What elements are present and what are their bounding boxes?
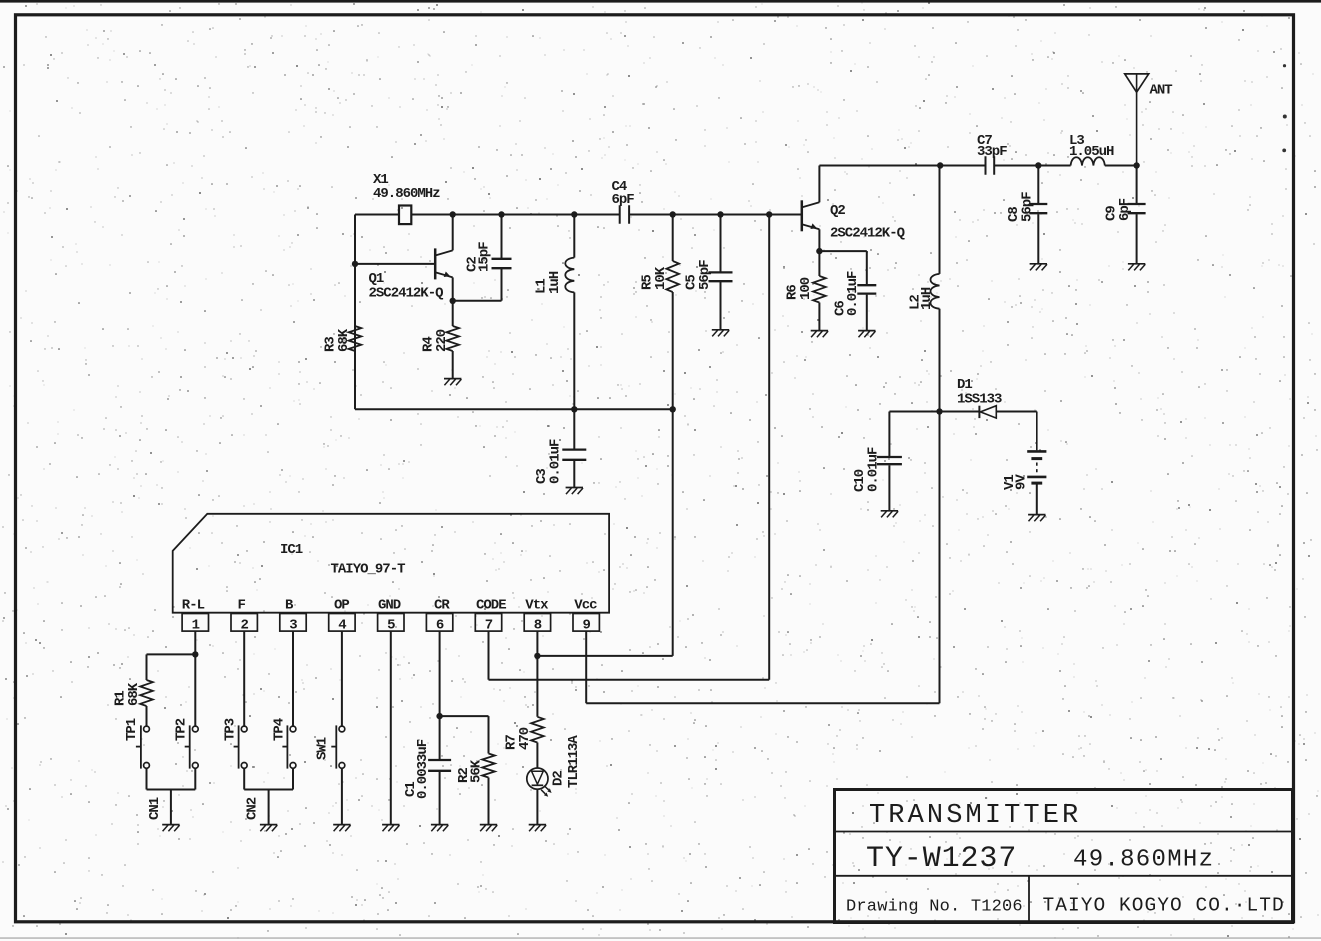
svg-text:TAIYO_97-T: TAIYO_97-T [331,562,406,578]
wire left vertical x355 [354,215,356,410]
wire TP4 bottom [292,768,294,789]
svg-text:TP4: TP4 [272,718,288,741]
antenna ANT [1125,74,1149,92]
ground C9 [1128,263,1145,265]
wire L1 top lead [573,215,575,258]
svg-text:ANT: ANT [1150,83,1173,99]
node L1 top junction [571,211,577,217]
wire pin6 to R2 [440,715,489,717]
node R5 top junction [670,211,676,217]
wire C2 bottom lead [501,269,503,301]
wire Q1 base [355,263,435,265]
battery V1 [1027,450,1046,453]
wire C10 bottom lead [888,465,890,510]
pin 7 box [475,614,501,632]
ground CN2 [260,824,277,826]
ground D2 [529,824,546,826]
testpoint TP2 [192,726,198,732]
switch SW1 [339,726,345,732]
capacitor C10 [877,456,902,458]
wire C9 bottom lead [1136,214,1138,264]
wire pin7 lead [488,631,490,680]
wire pin8 lead [536,631,538,717]
svg-text:OP: OP [334,598,349,614]
wire L1 bottom lead [573,292,575,409]
svg-text:33pF: 33pF [977,144,1007,160]
wire TP2 bottom [194,768,196,789]
wire Vtx riser [672,409,674,656]
wire CODE horizontal [489,679,770,681]
IC U1 outline [173,514,609,613]
svg-text:10K: 10K [653,266,669,290]
wire main line y214 left [355,214,399,216]
wire CN2 bracket [244,789,293,791]
pin 5 box [378,614,404,632]
wire R2 bottom lead [488,778,490,825]
wire Q1 collector [452,215,454,251]
transistor Q2 [801,200,804,231]
svg-text:TP1: TP1 [124,718,140,741]
transistor Q1 [434,248,437,279]
wire Vtx horizontal [537,655,672,657]
svg-text:68K: 68K [336,328,352,352]
svg-text:CN2: CN2 [245,797,261,820]
svg-text:F: F [238,598,246,614]
wire C1 bottom lead [439,772,441,825]
wire C3 top lead [573,409,575,449]
node R5 rail junction [670,406,676,412]
node CODE riser junction [766,211,772,217]
capacitor C5 [709,271,733,273]
svg-text:49.860MHz: 49.860MHz [373,186,440,202]
inductor L3 [1071,157,1105,165]
title block outer [835,790,1293,923]
svg-text:0.0033uF: 0.0033uF [415,739,431,799]
capacitor C2 [492,258,512,260]
ground V1 [1028,514,1045,516]
svg-text:2SC2412K-Q: 2SC2412K-Q [830,226,905,242]
LED D2 [527,768,548,789]
svg-text:2SC2412K-Q: 2SC2412K-Q [369,286,444,302]
svg-text:0.01uF: 0.01uF [547,439,563,484]
svg-text:49.860MHz: 49.860MHz [1073,847,1214,874]
testpoint TP3 [241,726,247,732]
node Q1 emitter junction [450,298,456,304]
ground C3 [566,487,583,489]
diode D1 [978,406,980,418]
svg-text:TAIYO KOGYO CO.·LTD: TAIYO KOGYO CO.·LTD [1043,895,1285,917]
node L1 rail junction [571,406,577,412]
wire C9 top lead [1136,166,1138,204]
wire R7 to D2 [536,743,538,769]
ground CN1 [162,824,179,826]
wire Vcc horizontal [586,702,939,704]
wire main line y214 mid [411,214,619,216]
svg-text:R-L: R-L [182,598,205,614]
resistor R3 [349,326,362,351]
node L2 top junction [937,162,943,168]
wire pin4 lead [341,631,343,726]
node pin1 junction [192,651,198,657]
resistor R4 [446,326,459,351]
svg-text:6pF: 6pF [612,192,635,208]
wire pin3 lead [292,631,294,726]
wire top line L3 to ANT [1105,165,1137,167]
ground R2 [480,824,497,826]
svg-text:1uH: 1uH [547,271,563,294]
wire Q2 collector riser [818,166,820,203]
wire pin9 lead [585,631,587,703]
wire pin5 GND lead [390,631,392,825]
ground R4 [444,378,461,380]
title block v-divider [1028,876,1030,923]
wire bottom rail y409 [355,408,673,410]
ground C10 [881,510,898,512]
title block h-line 2 [835,875,1293,877]
svg-text:Vcc: Vcc [574,598,597,614]
ground pin5 [382,824,399,826]
svg-text:470: 470 [517,727,533,750]
node Q1 base tap [352,261,358,267]
node Q1 collector junction [450,211,456,217]
wire pin6 lead [439,631,441,716]
wire R1 to TP1 [146,706,148,726]
svg-text:56pF: 56pF [1020,192,1036,222]
svg-text:15pF: 15pF [477,242,493,272]
wire main line y214 right [629,214,802,216]
svg-text:1SS133: 1SS133 [957,392,1002,408]
wire L2 bottom lead [939,309,941,412]
wire C10 top lead [888,412,890,457]
wire CN1 bracket [147,789,196,791]
svg-text:9V: 9V [1014,474,1030,490]
wire SW1 bottom [341,768,343,824]
testpoint TP1 [144,726,150,732]
wire C8 bottom lead [1037,214,1039,264]
title block h-line 1 [835,831,1293,833]
wire R5 bottom lead [672,292,674,409]
wire C1 top lead [439,716,441,759]
svg-text:0.01uF: 0.01uF [866,447,882,492]
svg-text:CR: CR [434,598,450,614]
capacitor C9 [1128,203,1146,205]
wire Q1 emitter [452,277,454,300]
scan edge bottom faint [0,937,1321,938]
ground C6 [858,330,875,332]
wire D1 to V1 [996,411,1037,413]
capacitor C8 [1029,203,1047,205]
wire R6 top lead [818,251,820,276]
svg-text:GND: GND [378,598,401,614]
pin 6 box [426,614,452,632]
wire R4 top [452,301,454,326]
wire Vcc riser [939,412,941,704]
svg-text:TY-W1237: TY-W1237 [866,842,1017,876]
pin 4 box [329,614,355,632]
svg-text:68K: 68K [126,682,142,706]
ground C5 [712,329,729,331]
svg-text:CN1: CN1 [147,797,163,820]
svg-text:1uH: 1uH [919,287,935,310]
wire emitter to C2 bottom [453,300,502,302]
wire C8 top lead [1037,166,1039,204]
wire D1 anode lead [940,411,980,413]
wire Q2 emitter lead [818,229,820,251]
wire top line y165 [819,165,985,167]
wire R4 bottom [452,351,454,379]
capacitor C6 [857,284,876,286]
resistor R7 [531,717,544,743]
node L2-D1-Vcc junction [936,408,942,414]
inductor L1 [565,258,574,293]
wire C2 top lead [501,215,503,259]
node pin6 junction [436,713,442,719]
wire top line C7 to L3 [994,165,1070,167]
node C5 top junction [717,211,723,217]
wire C10 branch [889,411,939,413]
wire TP3 bottom [243,768,245,789]
scan specks right edge [1283,64,1286,67]
ground C1 [431,824,448,826]
svg-text:CODE: CODE [476,598,506,614]
wire R5 top lead [672,215,674,262]
wire C6 bottom lead [866,295,868,331]
wire emitter to C6 [819,250,866,252]
svg-text:Q2: Q2 [830,203,845,219]
pin 3 box [280,614,306,632]
ground R6 [811,330,828,332]
capacitor C7 [985,156,987,175]
svg-text:220: 220 [434,329,450,352]
svg-text:IC1: IC1 [280,542,303,558]
node pin8 junction [534,653,540,659]
crystal X1 [399,206,411,225]
wire C6 top lead [866,251,868,284]
pin 8 box [524,614,550,632]
svg-text:TP2: TP2 [174,718,190,741]
resistor R5 [666,261,679,292]
svg-text:56K: 56K [469,759,485,783]
node C2 top junction [498,211,504,217]
node C8 top junction [1035,162,1041,168]
testpoint TP4 [290,726,296,732]
capacitor C1 [428,759,451,761]
wire D2 bottom lead [536,789,538,824]
pin 1 box [182,614,208,632]
ground C8 [1030,263,1047,265]
svg-text:6pF: 6pF [1117,198,1133,221]
svg-text:Drawing No. T1206: Drawing No. T1206 [846,898,1023,917]
wire V1 bottom lead [1036,484,1038,514]
capacitor C4 [619,205,621,224]
svg-text:Vtx: Vtx [525,598,549,614]
node ANT junction [1133,162,1139,168]
capacitor C3 [562,448,586,450]
wire C5 top lead [720,215,722,272]
pin 9 box [573,614,599,632]
svg-text:TLR113A: TLR113A [566,735,582,788]
wire C3 bottom lead [573,461,575,488]
svg-text:SW1: SW1 [315,737,331,760]
wire pin1 lead [194,631,196,726]
wire R6 bottom lead [818,303,820,331]
ground SW1 [333,824,350,826]
wire pin1 to R1 [147,653,196,655]
node Q2 emitter junction [816,248,822,254]
inductor L2 [931,274,940,309]
svg-text:100: 100 [798,277,814,300]
svg-text:TRANSMITTER: TRANSMITTER [869,801,1081,831]
svg-text:TP3: TP3 [223,718,239,741]
svg-text:D2: D2 [551,771,567,786]
wire pin2 lead [243,631,245,726]
scan edge top [0,0,1321,3]
wire L2 top lead [939,166,941,274]
wire TP1 bottom [146,768,148,789]
resistor R1 [140,680,153,706]
svg-text:56pF: 56pF [697,260,713,290]
resistor R2 [482,754,495,778]
pin 2 box [231,614,257,632]
svg-text:0.01uF: 0.01uF [845,271,861,316]
wire CODE riser [768,215,770,680]
svg-text:1.05uH: 1.05uH [1069,144,1114,160]
resistor R6 [813,276,826,303]
wire C5 bottom lead [720,282,722,330]
